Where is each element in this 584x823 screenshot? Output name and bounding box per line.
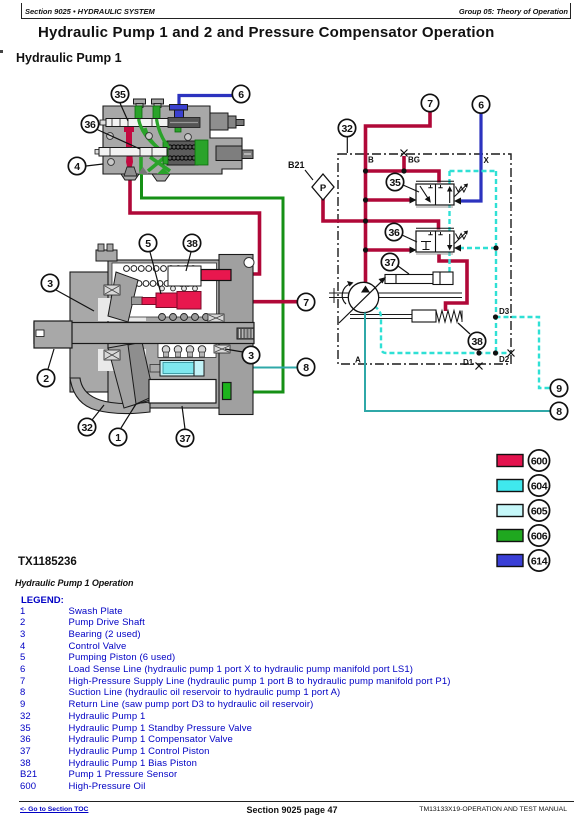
svg-text:38: 38	[187, 238, 198, 250]
svg-text:A: A	[355, 356, 361, 365]
svg-text:606: 606	[531, 530, 548, 542]
svg-text:6: 6	[478, 99, 484, 111]
svg-text:614: 614	[531, 555, 548, 567]
svg-text:32: 32	[342, 123, 353, 135]
svg-text:P: P	[320, 183, 327, 194]
svg-text:B: B	[368, 156, 374, 165]
svg-text:BG: BG	[408, 156, 420, 165]
svg-text:38: 38	[472, 336, 483, 348]
svg-text:35: 35	[115, 89, 126, 101]
svg-text:37: 37	[385, 257, 396, 269]
svg-text:7: 7	[303, 297, 309, 309]
svg-text:605: 605	[531, 505, 548, 517]
svg-text:2: 2	[43, 373, 49, 385]
svg-text:37: 37	[180, 433, 191, 445]
svg-text:8: 8	[556, 406, 562, 418]
svg-text:4: 4	[74, 161, 80, 173]
svg-text:36: 36	[85, 119, 96, 131]
svg-text:B21: B21	[288, 160, 305, 170]
svg-text:D1: D1	[463, 358, 474, 367]
svg-text:36: 36	[389, 227, 400, 239]
svg-text:3: 3	[248, 350, 254, 362]
svg-text:6: 6	[238, 89, 244, 101]
svg-text:35: 35	[390, 177, 401, 189]
svg-text:8: 8	[303, 362, 309, 374]
svg-text:9: 9	[556, 383, 562, 395]
svg-text:3: 3	[47, 278, 53, 290]
svg-text:5: 5	[145, 238, 151, 250]
svg-text:1: 1	[115, 432, 121, 444]
svg-text:604: 604	[531, 480, 548, 492]
svg-text:600: 600	[531, 455, 548, 467]
svg-text:7: 7	[427, 98, 433, 110]
svg-text:D2: D2	[499, 355, 510, 364]
svg-text:D3: D3	[499, 307, 510, 316]
svg-text:X: X	[484, 156, 490, 165]
svg-text:32: 32	[82, 422, 93, 434]
